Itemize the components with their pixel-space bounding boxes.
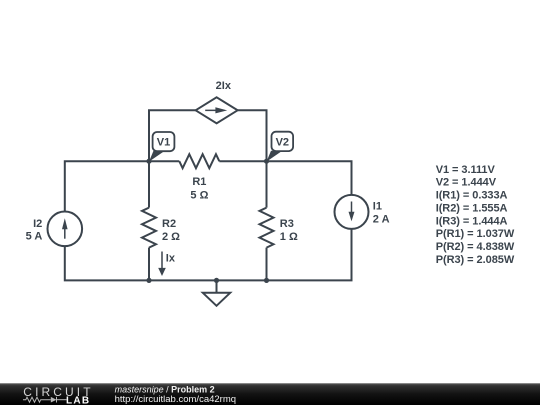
svg-text:R3: R3 <box>280 218 294 230</box>
ground triangle <box>203 293 230 306</box>
svg-text:I2: I2 <box>33 218 42 230</box>
results text block <box>436 164 515 266</box>
wire main rail left and left branch upper corner <box>65 161 180 211</box>
arrow of dependent source U1 <box>205 110 216 112</box>
svg-text:I(R1) = 0.333A: I(R1) = 0.333A <box>436 190 508 202</box>
arrow of current source I1 (down) <box>351 202 353 213</box>
node V1 flag tail <box>149 151 165 162</box>
wire main rail right and I1 top corner <box>219 161 351 195</box>
CircuitLab logo diode triangle <box>51 397 57 403</box>
svg-text:I(R3) = 1.444A: I(R3) = 1.444A <box>436 215 508 227</box>
svg-text:V1: V1 <box>157 137 170 149</box>
svg-text:5 Ω: 5 Ω <box>190 189 208 201</box>
junction dot R3 bottom <box>264 278 269 283</box>
svg-text:R2: R2 <box>162 218 176 230</box>
node V1 flag box <box>153 132 175 151</box>
junction dot node V2 <box>264 159 269 164</box>
svg-text:2Ix: 2Ix <box>216 80 232 92</box>
dependent current source U1 diamond 2Ix <box>196 97 238 123</box>
resistor R2 zigzag <box>142 208 156 248</box>
svg-text:http://circuitlab.com/ca42rmq: http://circuitlab.com/ca42rmq <box>115 394 236 405</box>
resistor R1 zigzag <box>179 154 219 168</box>
svg-text:V2: V2 <box>276 137 289 149</box>
wire R3 bottom lead <box>266 248 268 281</box>
junction dot R2 bottom <box>146 278 151 283</box>
wire R3 top lead <box>266 161 268 207</box>
CircuitLab logo diode bar and wire <box>56 397 58 403</box>
CircuitLab logo resistor squiggle <box>23 397 67 403</box>
svg-text:V1 = 3.111V: V1 = 3.111V <box>436 164 496 176</box>
footer bar <box>0 383 540 405</box>
svg-text:P(R2) = 4.838W: P(R2) = 4.838W <box>436 241 515 253</box>
svg-text:5 A: 5 A <box>26 231 43 243</box>
svg-text:1 Ω: 1 Ω <box>280 231 298 243</box>
svg-text:P(R1) = 1.037W: P(R1) = 1.037W <box>436 228 515 240</box>
junction dot node V1 <box>146 159 151 164</box>
svg-text:I1: I1 <box>373 200 382 212</box>
wire left branch lower, bottom rail, I1 branch lower <box>65 229 352 281</box>
svg-text:P(R3) = 2.085W: P(R3) = 2.085W <box>436 254 515 266</box>
resistor R3 zigzag <box>260 208 274 248</box>
svg-text:2 A: 2 A <box>373 213 390 225</box>
svg-text:R1: R1 <box>192 176 206 188</box>
wire top-left from V1 up to dependent source <box>149 110 196 161</box>
node V2 flag tail <box>267 151 283 162</box>
svg-text:I(R2) = 1.555A: I(R2) = 1.555A <box>436 203 508 215</box>
current source I1 circle <box>335 195 369 229</box>
svg-text:LAB: LAB <box>66 395 90 405</box>
arrow of current source I2 (up) <box>64 228 66 239</box>
ground stem <box>216 280 218 292</box>
current source I2 circle <box>48 212 83 247</box>
svg-text:V2 = 1.444V: V2 = 1.444V <box>436 177 497 189</box>
junction dot ground node <box>214 278 219 283</box>
svg-text:Ix: Ix <box>166 252 176 264</box>
wire top-right from dependent source to V2 <box>238 110 267 161</box>
wire R2 top lead <box>148 161 150 207</box>
svg-text:2 Ω: 2 Ω <box>162 231 180 243</box>
current probe arrow Ix (down) <box>161 252 163 269</box>
node V2 flag box <box>272 132 294 151</box>
wire R2 bottom lead <box>148 248 150 281</box>
